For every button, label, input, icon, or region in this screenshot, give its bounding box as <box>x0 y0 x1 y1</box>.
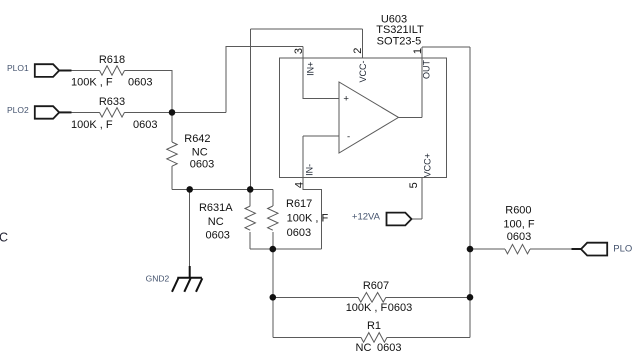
svg-text:-: - <box>347 131 350 142</box>
svg-text:IN-: IN- <box>305 164 315 176</box>
svg-text:R600: R600 <box>505 205 531 217</box>
svg-text:100, F: 100, F <box>503 219 534 231</box>
svg-text:100K , F: 100K , F <box>71 77 113 89</box>
svg-text:R642: R642 <box>184 133 210 145</box>
svg-text:GND2: GND2 <box>146 274 170 284</box>
svg-text:0603: 0603 <box>507 231 531 243</box>
svg-text:R617: R617 <box>286 198 312 210</box>
svg-text:TS321ILT: TS321ILT <box>376 24 424 36</box>
svg-text:0603: 0603 <box>190 159 214 171</box>
svg-text:1: 1 <box>412 48 424 54</box>
svg-text:0603: 0603 <box>128 77 152 89</box>
svg-text:PLO1: PLO1 <box>7 63 29 73</box>
svg-text:+12VA: +12VA <box>352 211 381 222</box>
svg-text:VCC-: VCC- <box>358 60 368 82</box>
svg-text:100K , F: 100K , F <box>71 119 113 131</box>
svg-text:PLO: PLO <box>613 244 632 255</box>
svg-text:100K , F: 100K , F <box>287 213 329 225</box>
svg-text:R631A: R631A <box>199 202 233 214</box>
svg-text:R618: R618 <box>99 54 125 66</box>
svg-text:0603: 0603 <box>133 119 157 131</box>
svg-text:4: 4 <box>294 182 306 188</box>
svg-text:NC: NC <box>208 216 224 228</box>
svg-text:NC: NC <box>192 146 208 158</box>
svg-text:NC: NC <box>356 342 372 354</box>
svg-text:PLO2: PLO2 <box>7 105 29 115</box>
svg-text:0603: 0603 <box>377 342 401 354</box>
svg-text:OUT: OUT <box>422 60 432 80</box>
svg-text:R1: R1 <box>367 320 381 332</box>
svg-text:IN+: IN+ <box>305 62 315 76</box>
svg-text:R633: R633 <box>99 96 125 108</box>
svg-text:0603: 0603 <box>287 227 311 239</box>
svg-text:0603: 0603 <box>205 230 229 242</box>
svg-text:5: 5 <box>408 182 420 188</box>
svg-text:R607: R607 <box>363 280 389 292</box>
svg-text:100K , F: 100K , F <box>346 302 388 314</box>
svg-text:C: C <box>0 231 8 245</box>
svg-text:+: + <box>343 94 349 105</box>
svg-text:SOT23-5: SOT23-5 <box>377 35 422 47</box>
svg-text:VCC+: VCC+ <box>422 153 432 177</box>
svg-text:2: 2 <box>352 48 364 54</box>
svg-text:3: 3 <box>293 48 305 54</box>
svg-text:0603: 0603 <box>388 302 412 314</box>
